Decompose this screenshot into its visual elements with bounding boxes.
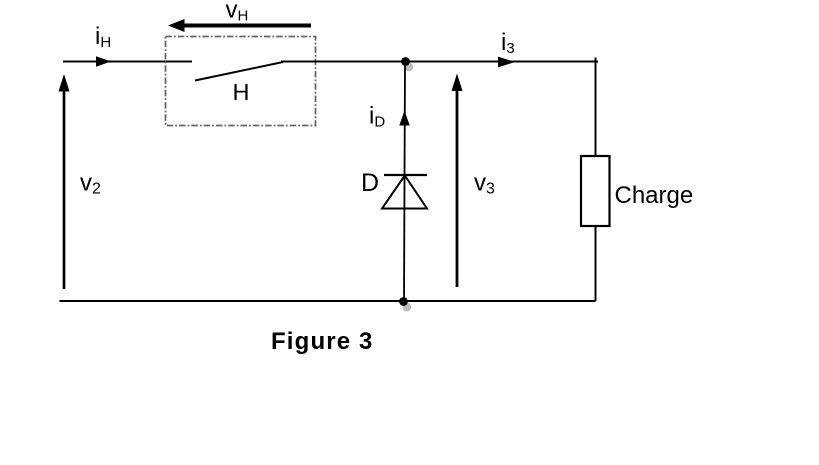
svg-text:H: H [233,79,250,105]
diode D cathode bar [384,174,427,176]
arrow v_H (thick, pointing left) [182,24,311,28]
wire diode branch (vertical) [404,62,405,302]
arrow i_3 head [498,57,515,68]
node A shadow (top junction) [404,63,413,72]
switch H lever [195,62,283,81]
wire right upper (corner to load) [595,58,597,157]
arrow v_3 [456,88,459,287]
arrow v_2 [63,88,66,289]
arrow i_D head [399,111,409,126]
svg-text:Charge: Charge [615,182,694,209]
wire top (switch to right corner) [281,61,598,63]
node A (top junction dot) [401,57,410,66]
wire bottom return [60,300,596,302]
svg-text:Figure 3: Figure 3 [271,328,374,355]
node B shadow (bottom junction) [402,303,411,312]
load Charge rectangle [581,156,610,226]
node B (bottom junction dot) [399,297,408,306]
switch H enclosure (dash-dot box) [166,37,316,126]
svg-text:D: D [361,169,379,197]
wire right lower (load to bottom corner) [595,226,597,301]
diode D triangle [382,176,427,209]
arrow i_H head [96,56,111,66]
wire top-left input stub [63,61,192,63]
